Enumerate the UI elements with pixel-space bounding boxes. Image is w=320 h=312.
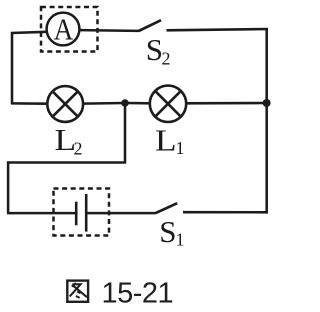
wire middle vertical (junction down) (124, 103, 127, 163)
switch S1 blade (156, 203, 177, 213)
wire bottom to battery (7, 212, 76, 215)
wire right vertical (265, 28, 268, 213)
svg-text:2: 2 (162, 49, 171, 69)
svg-text:1: 1 (176, 229, 185, 249)
svg-text:A: A (54, 13, 74, 47)
switch S2 blade (139, 20, 161, 31)
label S2 (146, 32, 171, 68)
label L1 (155, 124, 184, 157)
junction dot middle (121, 99, 129, 107)
svg-text:15-21: 15-21 (102, 278, 174, 310)
battery cell (76, 194, 86, 232)
ammeter dashed box (41, 7, 98, 52)
svg-text:2: 2 (74, 138, 83, 158)
wire top-right horizontal (167, 29, 268, 30)
label S1 (159, 214, 184, 250)
svg-text:S: S (146, 32, 163, 67)
label L2 (55, 124, 83, 158)
wire L1 to right junction (186, 102, 267, 105)
wire bottom-left vertical (7, 161, 10, 213)
svg-text:S: S (159, 214, 176, 249)
wire ammeter to switch S2 (81, 29, 139, 32)
wire bottom-right horizontal (183, 211, 268, 214)
svg-text:L: L (155, 124, 177, 157)
wire lamp row left (11, 102, 47, 105)
wire junction to L1 (125, 102, 150, 105)
ammeter A (47, 13, 82, 47)
junction dot right (263, 99, 271, 107)
lamp L2 (47, 86, 83, 122)
battery dashed box (54, 189, 110, 236)
lamp L1 (150, 86, 186, 122)
wire middle horizontal (7, 161, 126, 164)
wire left vertical (11, 32, 14, 104)
svg-text:1: 1 (176, 138, 185, 158)
wire battery to switch S1 (86, 212, 156, 215)
wire L2 to middle junction (83, 102, 125, 105)
wire top-left horizontal (11, 32, 47, 33)
caption glyph 图 (67, 281, 88, 302)
